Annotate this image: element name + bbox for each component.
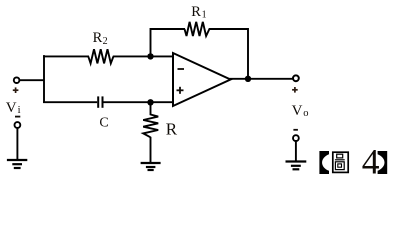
caption bracket left xyxy=(319,151,329,174)
op-amp minus sign xyxy=(178,68,185,70)
resistor R xyxy=(143,115,158,138)
wire (R1 loop: left riser) xyxy=(151,29,186,56)
caption bracket right xyxy=(378,151,388,174)
svg-text:o: o xyxy=(303,108,308,119)
resistor R2 xyxy=(88,49,113,63)
wire (C left lead) xyxy=(43,101,97,103)
svg-text:i: i xyxy=(18,105,21,116)
input terminal Vi- xyxy=(15,122,21,128)
label R1 xyxy=(191,4,206,21)
ground (output) xyxy=(286,162,307,170)
wire (R2 left lead) xyxy=(43,55,89,57)
svg-text:R: R xyxy=(93,30,103,46)
wire (R1 loop: right side down to output) xyxy=(209,29,248,79)
ground (input) xyxy=(7,160,27,168)
output terminal Vo- xyxy=(293,135,299,141)
svg-text:R: R xyxy=(191,4,201,20)
ground (below R) xyxy=(141,163,161,170)
wire (Vi- to ground) xyxy=(16,128,18,160)
input plus sign xyxy=(13,87,19,93)
svg-text:2: 2 xyxy=(103,36,108,47)
caption glyph (figure) xyxy=(333,152,348,172)
svg-text:1: 1 xyxy=(202,10,207,21)
node (non-inverting input junction) xyxy=(147,99,153,105)
wire (Vi+ to input node) xyxy=(20,79,44,81)
wire (R top lead) xyxy=(150,102,152,115)
label Vo xyxy=(292,103,309,119)
svg-text:V: V xyxy=(292,103,303,119)
svg-text:V: V xyxy=(6,100,17,116)
node (output junction) xyxy=(245,76,251,82)
wire (Vo- to ground) xyxy=(295,141,297,161)
wire (op-amp output) xyxy=(230,78,293,80)
label Vi xyxy=(6,100,21,116)
output plus sign xyxy=(292,87,298,93)
op-amp U1 xyxy=(173,53,231,106)
wire (R2 right lead) xyxy=(113,55,151,57)
input minus sign xyxy=(15,116,20,118)
output minus sign xyxy=(293,129,298,131)
node (inverting input junction) xyxy=(147,53,153,59)
svg-text:R: R xyxy=(166,119,178,138)
output terminal Vo+ xyxy=(293,75,299,81)
svg-text:C: C xyxy=(99,115,108,130)
resistor R1 xyxy=(185,22,210,36)
wire (C right lead) xyxy=(104,101,151,103)
wire (junction to non-inverting input) xyxy=(151,101,174,103)
capacitor C xyxy=(98,96,102,107)
wire (R bottom lead) xyxy=(150,137,152,163)
wire (junction to inverting input) xyxy=(151,55,174,57)
label R2 xyxy=(93,30,108,47)
input terminal Vi+ xyxy=(14,77,20,83)
svg-text:4: 4 xyxy=(362,142,380,182)
wire (input vertical between R2 and C branches) xyxy=(43,55,45,103)
op-amp plus sign xyxy=(177,87,184,94)
